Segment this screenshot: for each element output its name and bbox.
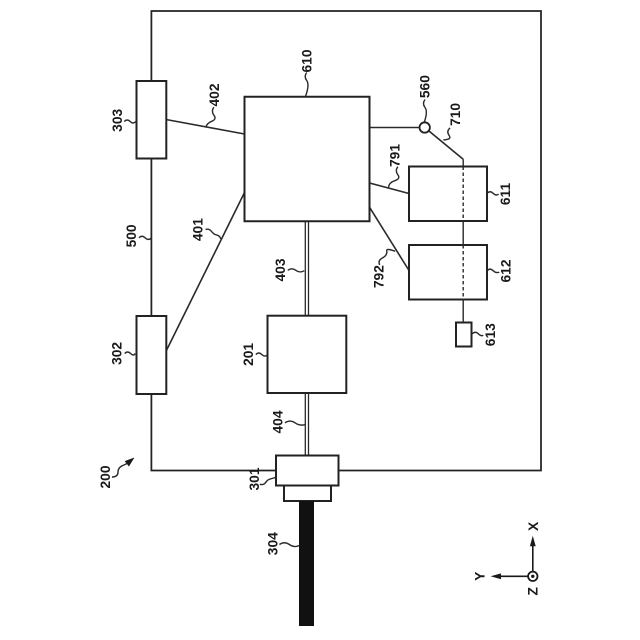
svg-text:201: 201 xyxy=(241,343,256,366)
svg-text:304: 304 xyxy=(266,532,281,555)
svg-text:612: 612 xyxy=(498,259,513,282)
svg-text:401: 401 xyxy=(191,218,206,241)
svg-text:200: 200 xyxy=(98,465,113,488)
svg-text:500: 500 xyxy=(124,224,139,247)
svg-text:613: 613 xyxy=(483,323,498,346)
svg-text:791: 791 xyxy=(388,144,403,167)
svg-text:Z: Z xyxy=(526,587,541,596)
svg-text:Y: Y xyxy=(472,572,487,581)
svg-text:792: 792 xyxy=(372,265,387,288)
svg-text:303: 303 xyxy=(110,108,125,131)
svg-text:610: 610 xyxy=(300,49,315,72)
svg-text:301: 301 xyxy=(247,467,262,490)
svg-text:404: 404 xyxy=(271,410,286,433)
svg-text:611: 611 xyxy=(498,183,513,206)
svg-text:302: 302 xyxy=(110,342,125,365)
svg-text:560: 560 xyxy=(418,75,433,98)
svg-text:X: X xyxy=(526,521,541,531)
svg-text:403: 403 xyxy=(273,258,288,281)
svg-text:710: 710 xyxy=(448,103,463,126)
svg-text:402: 402 xyxy=(207,83,222,106)
